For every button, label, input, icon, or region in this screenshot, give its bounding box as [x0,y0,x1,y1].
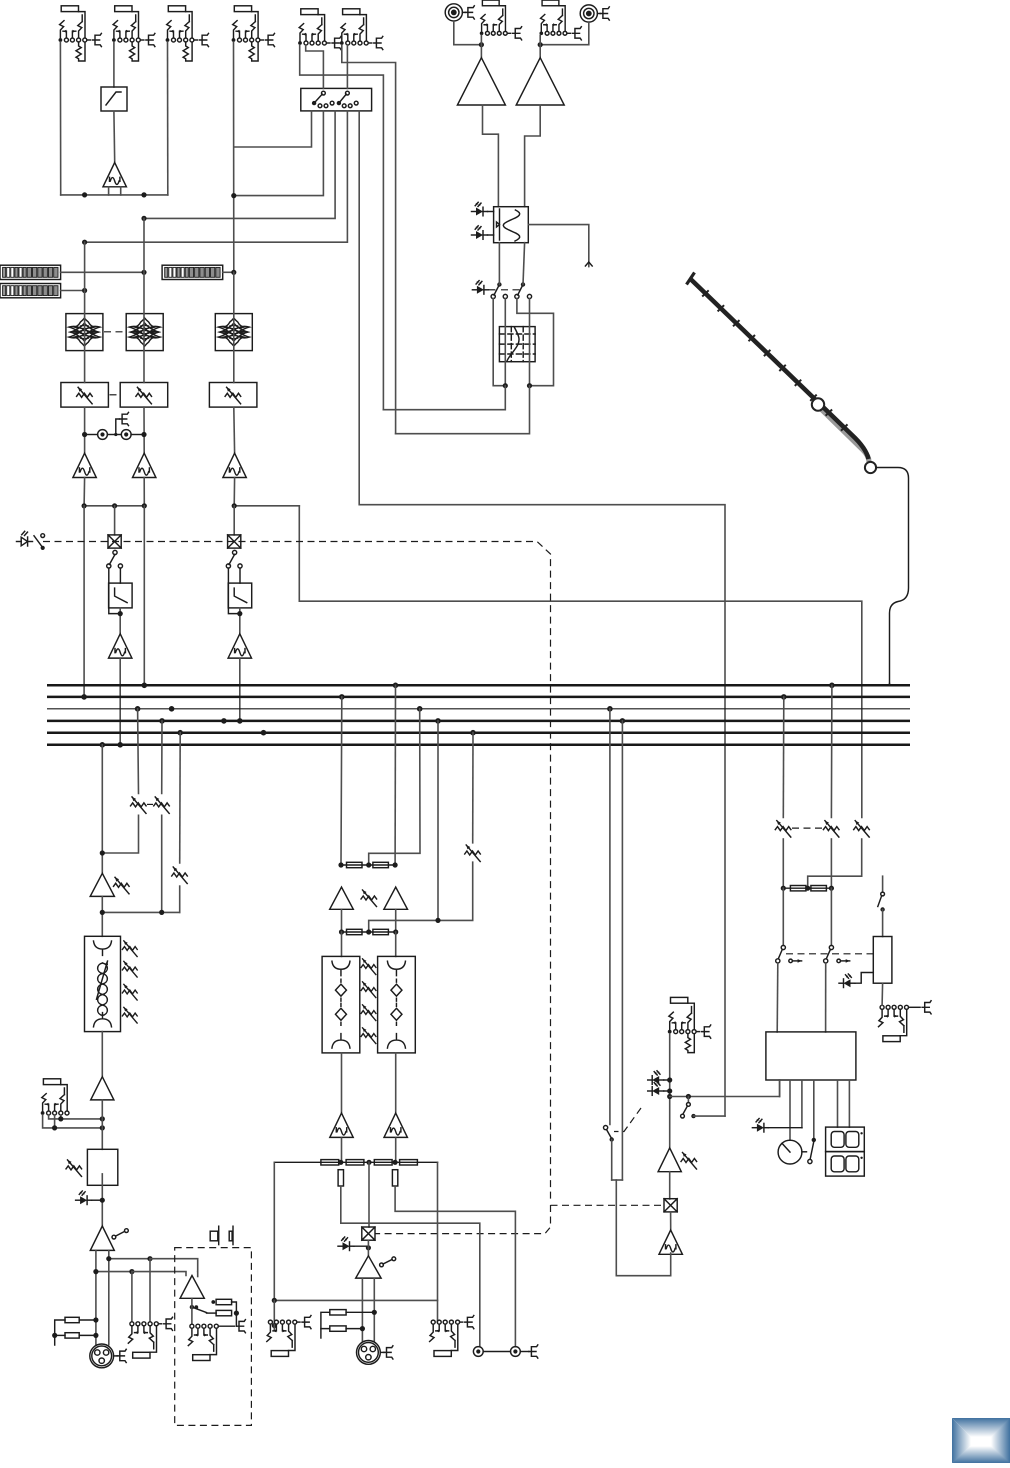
mic input jack [668,997,700,1052]
booth amp switch [380,1263,384,1267]
booth feed wires [437,1162,439,1300]
main amp R [384,1113,407,1137]
LP filter box [228,583,252,608]
ch12 cue to bus line6 [119,658,121,745]
amp A4 out [101,896,103,936]
selector switch S2 [337,101,341,105]
effects pot [465,845,481,862]
BPM sync out wire [528,225,589,267]
master EQ pot 2 [122,961,137,977]
mic LED sig [648,1082,664,1096]
EQ gang dashes [104,331,125,333]
mic to phones-source wire [670,1080,780,1097]
line3 tap to L row [369,709,420,865]
sum node wire [102,911,179,913]
cue X-box ch12 [108,535,121,548]
pot3 down [179,886,181,912]
LED crossfader switch [472,281,488,295]
phones selector feeds [776,963,779,1032]
wire RCA2 to amp [540,22,589,45]
channel amp ch2 [133,453,156,477]
speaker feedback resistors [216,1299,232,1304]
wire jack7 to amp [480,35,482,57]
amp A1 output legs [109,187,121,195]
parameter knob [778,1140,802,1164]
booth LED [338,1237,354,1251]
wire RCA1 to amp [454,21,482,45]
ch1 fader to amp [84,407,86,453]
master out dual feed [95,1250,97,1344]
LED beat B [472,226,488,240]
LP filter box [109,583,133,608]
branch to cue X-box [114,506,116,535]
channel EQ block ch3 [215,314,252,351]
ch3 vertical upper [233,272,235,382]
mic out to bus [616,1253,670,1276]
main mix R feed [394,685,396,865]
amp A6 mute switch [112,1235,116,1239]
channel EQ block ch2 [126,314,163,351]
level meter M2 [0,284,61,298]
bus line 4 [47,720,910,723]
bus line 5 [47,731,910,734]
wire jack5 to crossfader feed [300,45,384,410]
line4 tap to row2 [369,721,438,932]
main EQ pot 2 [361,982,376,998]
page corner graphic [952,1418,1010,1463]
crossfader lever assembly [687,273,877,474]
input jack J3 [166,6,198,61]
mix resistor row 2 [341,909,343,932]
XLR master out L [90,1344,117,1368]
7-segment display [826,1127,865,1152]
main mix L feed [340,697,343,865]
wire jack8 to amp [539,35,541,57]
XLR build-out resistors [65,1317,79,1322]
booth amp A5 [91,1077,114,1100]
node A [84,505,144,507]
channel fader ch3 [209,383,257,408]
internal speaker dashed box [175,1248,252,1426]
speaker icon 1 [210,1226,219,1244]
crossfader curve box [499,327,535,362]
fader gang dashes [110,394,120,396]
booth out amp [356,1256,381,1278]
booth out dual feed [361,1278,363,1341]
main EQ pot 4 [361,1028,376,1044]
cue switch [233,550,237,554]
monitor pot booth [854,821,870,838]
input jack J4 [232,6,264,61]
bus line 6 [47,744,910,747]
level meter M3 [162,265,223,279]
mix amp L [330,887,354,909]
amp A5 out [101,1100,103,1149]
bus line 1 [47,684,910,687]
crossfader S-curve [507,328,519,362]
input amp A3 [516,58,564,105]
bus line 2 [47,696,910,699]
RCA rec out R [511,1347,521,1357]
input jack J1 [59,6,91,61]
input jack J2 [112,6,144,61]
wire to rec RCA [85,434,98,436]
booth X-box [362,1227,375,1240]
rec out wires [341,1186,480,1347]
wire phono box to amp [113,111,116,163]
level meter M1 [0,265,61,279]
off-page chevron [585,262,592,266]
ch2 drop to bus line1 [143,506,145,686]
wire jack1 down [59,42,61,195]
ch3 cue to bus line4 [239,658,241,721]
wire jack6 tap to selector [346,45,348,88]
node line ch1/ch2 [61,194,168,196]
EQ R out [395,1053,397,1113]
wire jack5 tap to selector [306,45,324,88]
master pot P2 [154,797,170,814]
power switch [882,876,884,892]
wire jack4 down to ch3 [233,42,235,272]
pot2 down [161,815,163,912]
channel fader ch1 [61,383,109,408]
phones jack [879,1005,921,1041]
main EQ pot 1 [361,959,376,975]
master LED [76,1191,92,1205]
mic amp [658,1148,681,1172]
RCA rec L [98,430,108,440]
phono RIAA box [101,87,127,111]
speaker gain switch [190,1305,194,1309]
EQ out [101,1032,103,1077]
power block [873,937,892,984]
channel EQ block ch1 [66,314,103,351]
booth jack R [430,1320,463,1356]
channel amp ch3 [223,453,246,477]
XLR booth out [357,1341,384,1365]
input amp A2 [457,58,505,105]
RCA input CD-R [580,5,600,22]
booth jack L [267,1320,300,1356]
mic switch [604,1126,608,1130]
fader out [101,1174,103,1226]
tap switch [812,1138,816,1142]
speaker jack [188,1324,234,1360]
wire meter1 [61,271,144,273]
post filter amp [228,634,251,658]
line amp A1 [103,163,126,187]
aux pot P3 [172,867,188,884]
cue switch [113,550,117,554]
ch1 vertical upper [84,242,86,382]
master pot P1 [131,797,147,814]
monitor pot R [823,821,839,838]
mic X-box [664,1199,677,1212]
master fader block [87,1149,117,1185]
mic sum amp [659,1230,682,1254]
rec ground stub [116,419,120,435]
BPM counter box [494,207,529,243]
bus junction dots [81,694,87,700]
master EQ block [85,936,121,1031]
monitor resistor row [782,839,784,888]
input jack J5 [298,9,330,45]
cue X-box ch3 [228,535,241,548]
RCA rec out L [473,1347,483,1357]
master gain pot [114,877,130,894]
sine symbol [503,210,519,241]
LED beat A [472,202,488,216]
beat assign switch A [497,282,501,286]
mic talk switch [686,1094,691,1099]
mic dashed control [614,1108,641,1132]
phones source switches [782,888,784,945]
RCA rec R [121,430,131,440]
mic LED peak [648,1071,664,1085]
wire meter2 [61,290,85,292]
post filter amp [109,634,132,658]
master strip verticals from bus [101,745,103,874]
bus line 3 [47,708,910,710]
cue control LED+switch [17,531,33,546]
wire jack6 to crossfader feed [342,45,396,434]
main EQ block L [322,956,360,1053]
master EQ pot 4 [122,1007,137,1023]
ch1 amp out [83,478,86,506]
wire meter3 [223,271,234,273]
mic level pot [681,1153,697,1170]
wire jack3 down [167,42,169,195]
wires to booth jacks [109,1258,150,1260]
booth resistors [330,1310,346,1315]
channel amp ch1 [73,453,96,477]
selector pin wires [234,111,312,147]
output resistor network [274,1161,437,1163]
balance pot [66,1160,82,1177]
ch3 fader to amp [233,407,236,453]
ch1 drop to bus line2 [83,506,85,697]
mix gang pot [361,890,377,907]
crossfader cable [876,468,908,684]
pot1 out to master node [102,815,138,853]
aux return jack [41,1079,69,1115]
selector switch S1 [312,101,316,105]
filter bypass loop [109,568,120,614]
master amp A4 [90,873,114,896]
mix resistor row 1 [341,864,395,866]
amp A2 out to BPM box [483,105,499,207]
block bottom pins [779,1080,781,1097]
master out amp A6 [90,1226,114,1250]
speaker icon 2 [229,1226,233,1244]
main EQ block R [378,956,416,1053]
mix amp R [384,887,408,909]
power LED [839,974,855,988]
wire jack2 to phono box [113,42,115,87]
filter bypass loop [228,568,239,614]
crossfader wiring [493,299,505,386]
divider resistor L [338,1170,343,1186]
input jack J7 [480,0,511,35]
input selector box [301,88,372,111]
ch2 amp out [143,478,145,506]
EQ L out [341,1053,343,1113]
ch2 fader to amp [143,407,145,453]
channel fader ch2 [120,383,168,408]
mic chain vertical [669,1034,671,1148]
phones dash line [786,953,873,955]
input jack J6 [340,9,372,45]
amp A3 out to BPM box [525,105,541,207]
mic source verticals [609,709,611,1125]
speaker amp [180,1276,204,1299]
monitor pot L [775,821,791,838]
main amp L [330,1113,353,1137]
line5 tap via pot [472,733,474,843]
master EQ pot 1 [122,941,137,957]
headphone amp block [766,1032,856,1080]
RCA input CD-L [445,4,465,21]
input jack J8 [539,0,570,35]
master out jack L/R [128,1322,161,1358]
divider resistor R [392,1170,397,1186]
aux return wires [49,1115,103,1119]
master EQ pot 3 [122,984,137,1000]
cue dashed control line [43,542,664,1234]
booth chain [368,1162,370,1227]
monitor feed wire [299,506,862,818]
main EQ pot 3 [361,1005,376,1021]
tempo LED [752,1119,768,1133]
ch3 node [233,478,235,506]
ch2 vertical upper [143,218,145,382]
monitor pots from bus [782,697,785,818]
beat assign switch B [521,282,525,286]
